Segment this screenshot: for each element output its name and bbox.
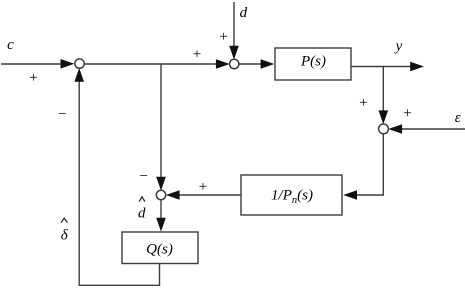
summing junction S3 <box>156 190 165 199</box>
svg-text:c: c <box>7 37 14 53</box>
svg-text:d: d <box>240 5 248 21</box>
wire: S1 to S2 <box>84 59 230 69</box>
svg-text:+: + <box>359 95 367 111</box>
wire: disturbance input d into S2 <box>229 2 239 60</box>
svg-text:y: y <box>394 39 403 55</box>
svg-text:d: d <box>138 205 146 221</box>
summing junction S2 <box>230 59 239 68</box>
summing junction S4 <box>379 124 389 134</box>
svg-text:Q(s): Q(s) <box>146 241 173 257</box>
wire: S2 to block P(s) <box>239 59 275 69</box>
summing junction S1 <box>75 59 84 68</box>
wire: P(s) output to y <box>351 62 424 72</box>
svg-text:ε: ε <box>455 110 461 126</box>
block 1/Pn(s) <box>241 175 342 215</box>
label d-hat <box>139 197 145 202</box>
svg-text:δ: δ <box>61 228 69 244</box>
svg-text:+: + <box>219 29 227 45</box>
block Q(s) <box>122 232 198 264</box>
svg-text:P(s): P(s) <box>300 53 326 69</box>
wire: branch of y down to S4 <box>379 67 389 125</box>
svg-text:−: − <box>139 169 147 185</box>
svg-text:+: + <box>193 46 201 62</box>
wire: branch node down to S3 <box>156 64 166 191</box>
wire: feedback from Q(s) around to S1 <box>74 68 159 285</box>
wire: S4 down and left into block 1/Pn(s) <box>343 134 383 200</box>
svg-text:+: + <box>199 179 207 195</box>
wire: 1/Pn(s) to S3 <box>166 190 241 200</box>
label delta-hat <box>61 218 67 222</box>
wire: S3 down to block Q(s) <box>156 200 166 232</box>
wire: input c into S1 <box>1 59 74 69</box>
block P(s) <box>275 48 351 80</box>
wire: noise input epsilon into S4 <box>388 124 465 134</box>
svg-text:+: + <box>29 70 37 86</box>
svg-text:−: − <box>58 107 66 123</box>
svg-text:+: + <box>403 105 411 121</box>
